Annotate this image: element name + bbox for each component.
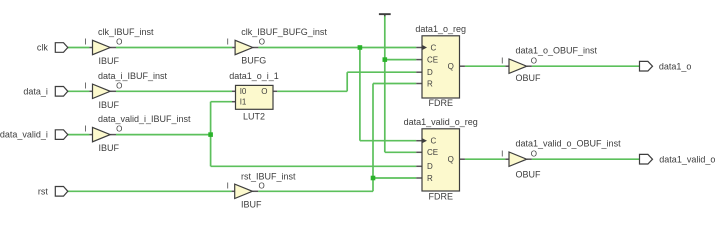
pin label O data_valid_i IBUF	[116, 125, 122, 134]
svg-text:rst: rst	[38, 186, 48, 196]
junction on clk net at BUFG output branch	[358, 45, 363, 50]
instance label data_valid_i_IBUF_inst	[98, 114, 191, 124]
pin label I1 LUT2	[240, 98, 247, 107]
pin label R FDRE2	[427, 174, 433, 183]
wire const1 net: horizontal into FDRE2 CE	[385, 151, 416, 153]
svg-text:data1_valid_o_OBUF_inst: data1_valid_o_OBUF_inst	[516, 139, 622, 149]
pin stub LUT2 O	[273, 90, 277, 92]
pin label I data_i IBUF	[84, 81, 86, 90]
pin stub FDRE1 CE	[416, 59, 422, 61]
pin stub OBUF1 input	[505, 65, 509, 67]
pin label CE FDRE1	[427, 55, 438, 64]
junction on rst net at FDRE2 R branch	[371, 176, 376, 181]
svg-text:FDRE: FDRE	[429, 191, 454, 201]
pin label I OBUF1	[501, 56, 503, 65]
svg-text:rst_IBUF_inst: rst_IBUF_inst	[241, 171, 296, 181]
port label clk	[37, 43, 48, 53]
svg-text:O: O	[116, 125, 122, 134]
pin label O rst IBUF	[259, 181, 265, 190]
svg-text:I: I	[501, 56, 503, 65]
pin label C FDRE2	[431, 137, 437, 146]
pin label O LUT2	[261, 87, 267, 96]
wire clk net: port to IBUF	[68, 47, 90, 49]
pin stub data_i IBUF input	[89, 90, 92, 92]
wire data_valid_i net: horizontal into LUT2 I1	[211, 101, 232, 103]
pin stub clk IBUF output	[110, 47, 116, 49]
wire data1_o_OBUF net: FDRE1 Q to OBUF	[465, 65, 505, 67]
type label LUT2	[243, 112, 265, 122]
type label FDRE (data1_valid_o_reg)	[429, 191, 454, 201]
svg-text:C: C	[431, 137, 437, 146]
svg-text:I: I	[84, 125, 86, 134]
pin label Q FDRE2	[448, 155, 454, 164]
pin stub FDRE2 C	[416, 140, 422, 142]
pin label I OBUF2	[501, 149, 503, 158]
type label IBUF (rst)	[241, 200, 262, 210]
pin label R FDRE1	[427, 79, 433, 88]
port label data1_valid_o	[659, 154, 715, 164]
pin label O BUFG	[259, 38, 265, 47]
pin label O data_i IBUF	[116, 81, 122, 90]
svg-text:D: D	[427, 68, 433, 77]
pin stub rst IBUF input	[232, 190, 235, 192]
pin stub FDRE2 R	[416, 177, 422, 179]
svg-text:clk_IBUF_inst: clk_IBUF_inst	[98, 27, 154, 37]
pin label O clk IBUF	[116, 38, 122, 47]
wire rst net: horizontal into FDRE1 R	[373, 83, 416, 85]
svg-text:I: I	[84, 81, 86, 90]
wire data1_o net: OBUF to output port	[532, 65, 640, 67]
svg-text:O: O	[259, 38, 265, 47]
svg-text:O: O	[531, 56, 537, 65]
pin stub BUFG output	[253, 47, 259, 49]
input port clk	[55, 43, 68, 53]
instance label data1_o_i_1	[229, 71, 279, 81]
pin stub FDRE2 CE	[416, 151, 422, 153]
svg-text:IBUF: IBUF	[99, 56, 120, 66]
svg-text:O: O	[259, 181, 265, 190]
svg-text:CE: CE	[427, 148, 438, 157]
pin stub FDRE2 D	[416, 165, 422, 167]
pin label I clk IBUF	[84, 38, 86, 47]
buffer data_valid_i_IBUF_inst	[93, 127, 111, 141]
wire data_valid_i net: vertical branch	[210, 102, 212, 167]
port label data_valid_i	[0, 130, 48, 140]
svg-text:FDRE: FDRE	[429, 98, 454, 108]
pin label C FDRE1	[431, 43, 437, 52]
svg-text:R: R	[427, 174, 433, 183]
wire rst net: IBUF output rightwards	[258, 190, 373, 192]
buffer clk_IBUF_BUFG_inst	[235, 40, 253, 54]
lut data1_o_i_1 LUT2 body	[236, 85, 274, 109]
instance label clk_IBUF_inst	[98, 27, 154, 37]
instance label clk_IBUF_BUFG_inst	[241, 27, 327, 37]
svg-text:data1_valid_o: data1_valid_o	[659, 154, 715, 164]
pin stub FDRE2 Q	[460, 158, 465, 160]
type label IBUF (data_i)	[99, 100, 120, 110]
pin label I rst IBUF	[227, 181, 229, 190]
pin label I data_valid_i IBUF	[84, 125, 86, 134]
svg-text:data1_o_reg: data1_o_reg	[415, 24, 466, 34]
pin stub FDRE1 D	[416, 71, 422, 73]
output port data1_o	[640, 61, 653, 71]
wire const1 net: horizontal into FDRE1 CE	[385, 59, 416, 61]
svg-text:data_i: data_i	[23, 86, 48, 96]
pin stub LUT2 I0	[232, 90, 236, 92]
svg-text:O: O	[116, 38, 122, 47]
svg-text:data1_o_i_1: data1_o_i_1	[229, 71, 279, 81]
svg-text:clk: clk	[37, 43, 48, 53]
pin stub clk IBUF input	[89, 47, 92, 49]
svg-text:data1_valid_o_reg: data1_valid_o_reg	[404, 117, 478, 127]
port label data1_o	[659, 61, 692, 71]
wire data1_valid_o net: OBUF to output port	[532, 158, 640, 160]
pin stub LUT2 I1	[232, 101, 236, 103]
pin stub data_valid_i IBUF output	[110, 134, 116, 136]
output port data1_valid_o	[640, 154, 653, 164]
wire clk net: horizontal into FDRE2 C	[360, 140, 416, 142]
instance label data1_o_reg	[415, 24, 466, 34]
type label OBUF (data1_valid_o)	[516, 170, 542, 180]
wire data_valid_i net: horizontal into FDRE2 D	[211, 165, 417, 167]
type label BUFG	[241, 56, 266, 66]
pin stub FDRE1 Q	[460, 65, 465, 67]
svg-text:BUFG: BUFG	[241, 56, 266, 66]
svg-text:OBUF: OBUF	[516, 73, 542, 83]
wire data1_valid_o_OBUF net: FDRE2 Q to OBUF	[465, 158, 505, 160]
wire data_valid_i net: IBUF to junction	[116, 134, 211, 136]
type label FDRE (data1_o_reg)	[429, 98, 454, 108]
pin label D FDRE1	[427, 68, 433, 77]
wire data1_o_i_1 output: LUT2 O rightwards	[277, 90, 347, 92]
instance label data_i_IBUF_inst	[98, 71, 168, 81]
pin stub data_i IBUF output	[110, 90, 116, 92]
instance label data1_valid_o_reg	[404, 117, 478, 127]
power symbol const1 (VCC bar)	[379, 13, 391, 16]
pin label CE FDRE2	[427, 148, 438, 157]
svg-text:data1_o: data1_o	[659, 61, 692, 71]
svg-text:C: C	[431, 43, 437, 52]
instance label data1_valid_o_OBUF_inst	[516, 139, 622, 149]
input port data_i	[55, 87, 68, 97]
svg-text:CE: CE	[427, 55, 438, 64]
svg-text:IBUF: IBUF	[99, 143, 120, 153]
pin stub FDRE1 C	[416, 47, 422, 49]
pin stub OBUF1 output	[527, 65, 532, 67]
pin stub BUFG input	[232, 47, 235, 49]
svg-text:clk_IBUF_BUFG_inst: clk_IBUF_BUFG_inst	[241, 27, 327, 37]
svg-text:I0: I0	[240, 87, 247, 96]
wire rst net: port to IBUF	[68, 190, 232, 192]
svg-text:Q: Q	[448, 62, 454, 71]
svg-text:O: O	[116, 81, 122, 90]
buffer rst_IBUF_inst	[235, 184, 253, 198]
svg-text:O: O	[261, 87, 267, 96]
flip-flop data1_valid_o_reg FDRE body	[422, 129, 460, 191]
svg-text:data_valid_i_IBUF_inst: data_valid_i_IBUF_inst	[98, 114, 191, 124]
svg-text:I: I	[84, 38, 86, 47]
wire data1_o_i_1 output: vertical up	[346, 72, 348, 91]
type label OBUF (data1_o)	[516, 73, 542, 83]
pin label I0 LUT2	[240, 87, 247, 96]
pin stub FDRE1 R	[416, 83, 422, 85]
svg-text:Q: Q	[448, 155, 454, 164]
wire data_valid_i net: port to IBUF	[68, 134, 90, 136]
pin stub data_valid_i IBUF input	[89, 134, 92, 136]
buffer data_i_IBUF_inst	[93, 84, 111, 98]
svg-text:OBUF: OBUF	[516, 170, 542, 180]
type label IBUF (data_valid_i)	[99, 143, 120, 153]
flip-flop data1_o_reg FDRE body	[422, 36, 460, 98]
instance label rst_IBUF_inst	[241, 171, 296, 181]
svg-text:I1: I1	[240, 98, 247, 107]
svg-text:R: R	[427, 79, 433, 88]
svg-text:IBUF: IBUF	[241, 200, 262, 210]
pin stub rst IBUF output	[252, 190, 258, 192]
buffer data1_valid_o_OBUF_inst	[509, 152, 527, 166]
svg-text:I: I	[227, 38, 229, 47]
junction on const1 net at FDRE1 CE branch	[383, 57, 388, 62]
svg-text:LUT2: LUT2	[243, 112, 265, 122]
pin label I BUFG	[227, 38, 229, 47]
instance label data1_o_OBUF_inst	[516, 46, 598, 56]
svg-text:data1_o_OBUF_inst: data1_o_OBUF_inst	[516, 46, 598, 56]
buffer data1_o_OBUF_inst	[509, 59, 527, 73]
svg-text:I: I	[227, 181, 229, 190]
svg-text:D: D	[427, 162, 433, 171]
port label rst	[38, 186, 48, 196]
port label data_i	[23, 86, 48, 96]
wire clk net: BUFG output to FDRE1 C	[258, 47, 416, 49]
svg-text:IBUF: IBUF	[99, 100, 120, 110]
wire clk net: vertical branch down to FDRE2 C	[359, 48, 361, 141]
wire data_i net: IBUF to LUT2 I0	[116, 90, 232, 92]
input port data_valid_i	[55, 130, 68, 140]
wire rst net: horizontal into FDRE2 R	[373, 177, 416, 179]
wire const1 net: vertical from power bar	[384, 15, 386, 153]
svg-text:data_valid_i: data_valid_i	[0, 130, 48, 140]
svg-text:I: I	[501, 149, 503, 158]
wire clk net: IBUF to BUFG	[116, 47, 232, 49]
pin label O OBUF2	[531, 149, 537, 158]
wire data_i net: port to IBUF	[68, 90, 90, 92]
junction on data_valid_i net branch	[208, 132, 213, 137]
pin label Q FDRE1	[448, 62, 454, 71]
type label IBUF (clk)	[99, 56, 120, 66]
buffer clk_IBUF_inst	[93, 40, 111, 54]
svg-text:O: O	[531, 149, 537, 158]
wire data1_o_i_1 output: horizontal into FDRE1 D	[347, 71, 416, 73]
svg-text:data_i_IBUF_inst: data_i_IBUF_inst	[98, 71, 168, 81]
pin stub OBUF2 input	[505, 158, 509, 160]
wire rst net: vertical up	[372, 84, 374, 192]
input port rst	[55, 187, 68, 197]
pin stub OBUF2 output	[527, 158, 532, 160]
pin label O OBUF1	[531, 56, 537, 65]
pin label D FDRE2	[427, 162, 433, 171]
